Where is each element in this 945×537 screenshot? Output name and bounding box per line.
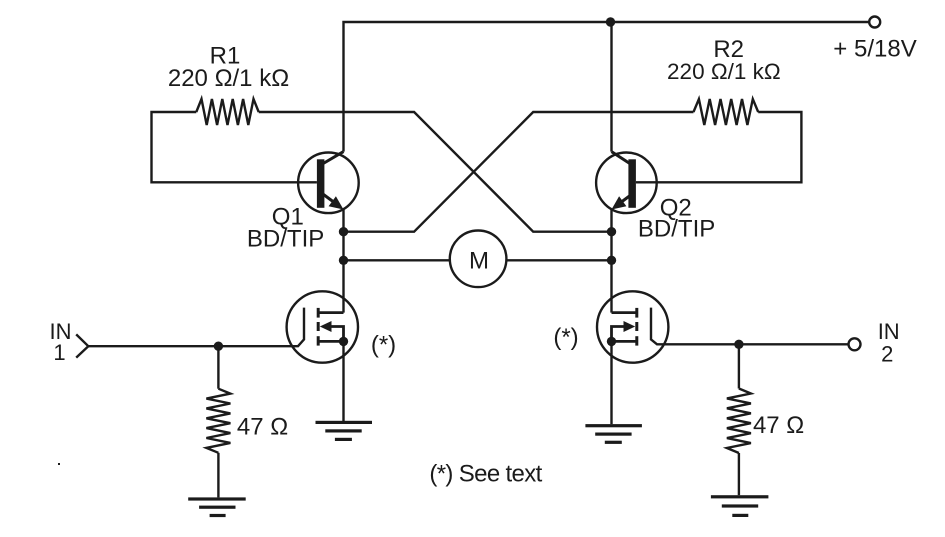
svg-text:47 Ω: 47 Ω — [753, 412, 804, 439]
svg-text:+ 5/18V: + 5/18V — [833, 35, 916, 62]
svg-text:220 Ω/1 kΩ: 220 Ω/1 kΩ — [168, 65, 289, 92]
svg-text:BD/TIP: BD/TIP — [638, 215, 715, 242]
svg-text:47 Ω: 47 Ω — [237, 414, 288, 441]
svg-text:220 Ω/1 kΩ: 220 Ω/1 kΩ — [667, 59, 781, 84]
svg-text:M: M — [469, 247, 489, 274]
svg-text:IN: IN — [878, 319, 900, 344]
svg-text:1: 1 — [53, 340, 65, 365]
svg-text:(*): (*) — [553, 324, 578, 351]
svg-text:BD/TIP: BD/TIP — [247, 225, 324, 252]
svg-text:(*) See text: (*) See text — [429, 460, 542, 487]
svg-text:(*): (*) — [371, 332, 396, 359]
svg-text:2: 2 — [881, 341, 893, 366]
